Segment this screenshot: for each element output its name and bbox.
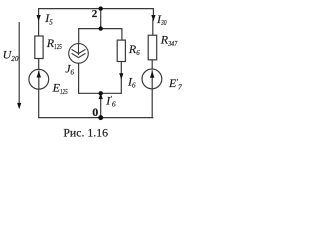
emf source E'7 [142, 69, 162, 89]
wire middle upper horizontal [79, 28, 122, 30]
svg-text:2: 2 [92, 8, 98, 20]
current arrow I6 [119, 73, 123, 79]
wire R6 branch upper [121, 29, 123, 40]
wire top horizontal [39, 8, 154, 10]
wire J6 branch upper [78, 29, 80, 44]
resistor R6 [117, 40, 125, 61]
wire right rail upper [152, 9, 154, 20]
wire right rail lower [151, 89, 153, 118]
node dot bottom (node 0) [98, 115, 103, 120]
voltage arrow U20 [18, 22, 20, 107]
svg-text:0: 0 [92, 105, 98, 119]
wire middle lower horizontal [79, 92, 122, 94]
svg-text:Рис. 1.16: Рис. 1.16 [63, 126, 108, 140]
node dot middle lower [99, 91, 103, 95]
current arrow I'6 (up) [99, 93, 103, 99]
current arrow I5 [37, 15, 41, 21]
emf source E125 [29, 69, 49, 89]
current arrow I30 [151, 15, 155, 21]
resistor R125 [35, 36, 43, 59]
wire left rail between R125 and E125 [38, 59, 40, 70]
wire right rail between R347 and E'7 [151, 60, 153, 69]
node dot middle upper [99, 26, 103, 30]
wire I'6 vertical [100, 93, 102, 117]
wire left rail lower [38, 89, 40, 117]
wire left rail upper [38, 9, 40, 36]
current source J6 [69, 44, 89, 64]
node dot top (node 2) [99, 6, 103, 10]
wire node2 vertical drop [100, 9, 102, 29]
wire bottom horizontal [39, 117, 153, 119]
wire J6 branch lower [78, 63, 80, 93]
wire R6 branch lower [120, 62, 122, 94]
resistor R347 [148, 35, 157, 60]
